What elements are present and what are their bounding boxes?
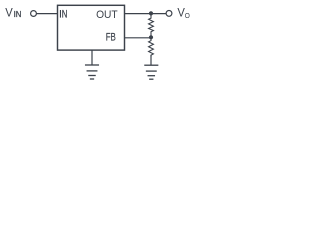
resistor R2 <box>149 38 154 57</box>
ground center <box>86 65 99 79</box>
svg-text:O: O <box>185 13 191 20</box>
label VO <box>177 6 190 20</box>
svg-text:FB: FB <box>106 32 116 44</box>
regulator U1 box <box>58 5 125 50</box>
terminal VIN <box>31 11 37 17</box>
terminal VO <box>166 11 172 17</box>
node FB junction <box>149 35 153 39</box>
wire R2 to ground <box>150 56 152 65</box>
svg-text:IN: IN <box>14 10 22 19</box>
pin label IN <box>60 8 67 19</box>
svg-text:N: N <box>62 8 68 19</box>
svg-text:V: V <box>5 6 13 19</box>
wire OUT <box>125 13 166 15</box>
wire FB <box>125 37 151 39</box>
ground right <box>145 65 158 79</box>
node VOUT junction <box>149 11 153 15</box>
resistor R1 <box>149 14 154 36</box>
wire GND pin <box>91 50 93 64</box>
wire input <box>37 13 57 15</box>
label VIN <box>5 6 21 19</box>
svg-text:OUT: OUT <box>96 9 118 21</box>
